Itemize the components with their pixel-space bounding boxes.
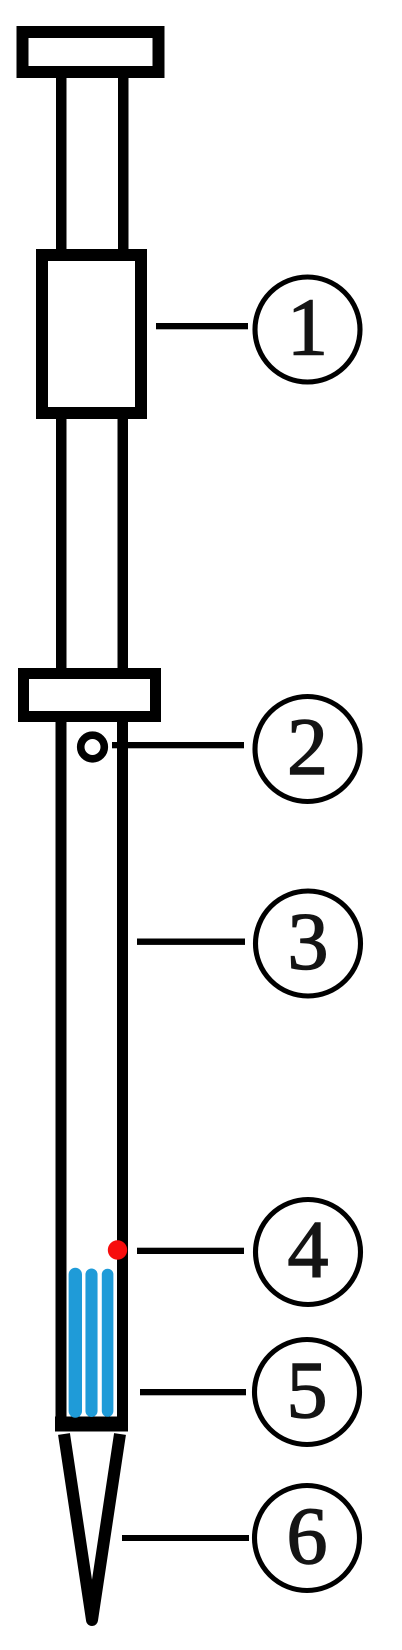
svg-text:2: 2 (287, 701, 328, 792)
callout circle 5 (255, 1340, 360, 1445)
leader line 3 (137, 939, 245, 945)
callout circle 4 (256, 1200, 361, 1305)
callout circle 2 (255, 697, 360, 802)
blue line 1 (69, 1275, 82, 1412)
lower shaft left wall (56, 419, 67, 673)
upper shaft right wall (118, 78, 129, 254)
callout circle 6 (255, 1486, 360, 1591)
leader line 6 (122, 1535, 249, 1541)
tube bottom bar (55, 1417, 128, 1432)
svg-text:4: 4 (288, 1204, 329, 1295)
svg-text:6: 6 (287, 1490, 328, 1581)
flange collar (24, 674, 156, 717)
leader line 5 (140, 1389, 246, 1395)
plunger block (42, 255, 141, 413)
vent hole (81, 735, 105, 759)
leader line 1 (156, 323, 248, 329)
pointed tip (64, 1434, 120, 1620)
callout circle 1 (255, 277, 360, 382)
svg-text:3: 3 (288, 896, 329, 987)
blue line 2 (85, 1275, 97, 1412)
lower shaft right wall (118, 419, 129, 673)
upper shaft left wall (56, 78, 67, 254)
blue line 3 (102, 1275, 114, 1412)
red dot (108, 1240, 127, 1259)
tube right wall (117, 716, 128, 1422)
tube left wall (56, 716, 67, 1422)
svg-text:5: 5 (287, 1344, 328, 1435)
svg-text:1: 1 (287, 282, 328, 373)
leader line 4 (137, 1248, 244, 1254)
top T-handle (23, 32, 159, 72)
leader line 2 (112, 742, 244, 748)
callout circle 3 (256, 891, 361, 996)
